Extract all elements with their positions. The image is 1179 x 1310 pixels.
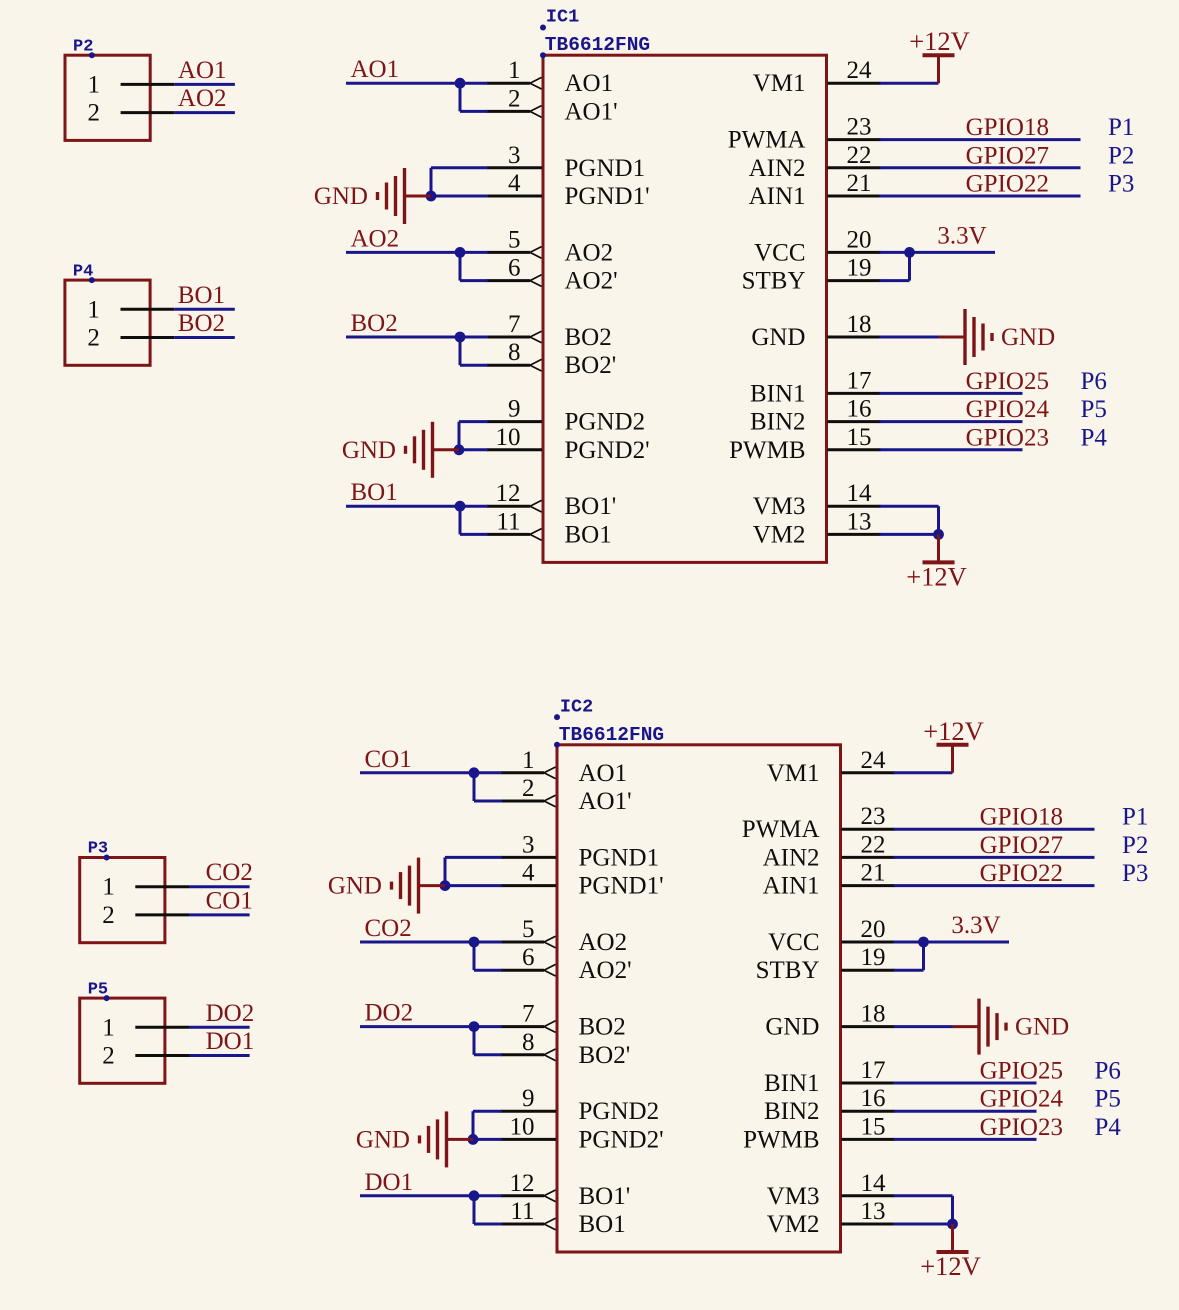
svg-text:P2: P2	[1108, 142, 1134, 169]
svg-text:PWMA: PWMA	[742, 816, 820, 843]
svg-text:AO1': AO1'	[579, 788, 632, 815]
svg-text:20: 20	[847, 226, 872, 253]
svg-text:18: 18	[861, 1001, 886, 1028]
svg-text:23: 23	[847, 114, 872, 141]
svg-text:3: 3	[508, 142, 521, 169]
svg-text:BO1: BO1	[579, 1211, 626, 1238]
svg-text:VM3: VM3	[767, 1183, 820, 1210]
svg-text:BO2': BO2'	[579, 1042, 631, 1069]
svg-text:3.3V: 3.3V	[937, 222, 986, 249]
svg-text:BO2: BO2	[351, 310, 398, 337]
svg-text:9: 9	[508, 396, 521, 423]
svg-text:GPIO27: GPIO27	[966, 142, 1049, 169]
svg-text:6: 6	[522, 944, 535, 971]
svg-text:7: 7	[508, 311, 521, 338]
svg-text:AIN1: AIN1	[763, 873, 820, 900]
svg-text:GND: GND	[1001, 324, 1055, 351]
svg-text:GPIO22: GPIO22	[980, 860, 1063, 887]
svg-text:CO1: CO1	[206, 887, 253, 914]
svg-text:AO2': AO2'	[565, 268, 618, 295]
svg-text:GND: GND	[328, 873, 382, 900]
svg-text:24: 24	[847, 57, 873, 84]
svg-text:11: 11	[510, 1198, 534, 1225]
svg-text:15: 15	[861, 1113, 886, 1140]
svg-text:BO1: BO1	[565, 521, 612, 548]
svg-text:17: 17	[861, 1057, 886, 1084]
svg-text:GND: GND	[765, 1014, 819, 1041]
svg-text:+12V: +12V	[920, 1251, 981, 1281]
svg-text:P3: P3	[1122, 860, 1148, 887]
svg-text:BO2: BO2	[579, 1014, 626, 1041]
svg-text:21: 21	[861, 860, 886, 887]
svg-text:4: 4	[508, 170, 521, 197]
svg-text:PWMB: PWMB	[743, 1126, 819, 1153]
svg-text:VM1: VM1	[753, 70, 806, 97]
svg-text:GPIO23: GPIO23	[966, 424, 1049, 451]
svg-text:1: 1	[102, 874, 115, 901]
svg-text:PGND2: PGND2	[565, 409, 646, 436]
svg-text:GPIO24: GPIO24	[966, 396, 1050, 423]
svg-text:7: 7	[522, 1001, 535, 1028]
svg-text:DO1: DO1	[365, 1169, 414, 1196]
svg-text:IC1: IC1	[546, 7, 579, 28]
svg-text:21: 21	[847, 170, 872, 197]
svg-text:4: 4	[522, 860, 535, 887]
svg-text:17: 17	[847, 367, 872, 394]
svg-text:15: 15	[847, 424, 872, 451]
svg-text:AO1: AO1	[178, 57, 227, 84]
svg-text:BIN2: BIN2	[764, 1098, 820, 1125]
svg-text:DO1: DO1	[206, 1028, 255, 1055]
svg-text:AO2: AO2	[178, 85, 227, 112]
svg-text:11: 11	[496, 508, 520, 535]
svg-text:GPIO27: GPIO27	[980, 832, 1063, 859]
svg-text:P5: P5	[1095, 1086, 1121, 1113]
svg-text:P1: P1	[1108, 114, 1134, 141]
svg-text:8: 8	[522, 1029, 535, 1056]
svg-text:13: 13	[847, 508, 872, 535]
svg-text:PGND1: PGND1	[565, 155, 646, 182]
svg-text:1: 1	[88, 71, 101, 98]
svg-text:AO1': AO1'	[565, 98, 618, 125]
svg-text:P4: P4	[1095, 1114, 1122, 1141]
svg-text:2: 2	[88, 100, 101, 127]
svg-text:STBY: STBY	[742, 268, 806, 295]
svg-text:PGND1': PGND1'	[579, 873, 664, 900]
svg-text:CO2: CO2	[206, 859, 253, 886]
svg-text:P6: P6	[1095, 1058, 1121, 1085]
svg-text:+12V: +12V	[906, 561, 967, 591]
svg-text:VM3: VM3	[753, 493, 806, 520]
svg-text:BIN1: BIN1	[764, 1070, 820, 1097]
svg-text:1: 1	[102, 1014, 115, 1041]
svg-text:GPIO25: GPIO25	[966, 368, 1049, 395]
svg-text:5: 5	[522, 916, 535, 943]
svg-text:BIN2: BIN2	[750, 409, 806, 436]
svg-text:P3: P3	[1108, 171, 1134, 198]
svg-text:GND: GND	[314, 183, 368, 210]
svg-text:AIN2: AIN2	[763, 844, 820, 871]
svg-text:PWMA: PWMA	[728, 127, 806, 154]
svg-text:TB6612FNG: TB6612FNG	[545, 34, 650, 56]
svg-text:P4: P4	[1081, 424, 1108, 451]
svg-text:GPIO23: GPIO23	[980, 1114, 1063, 1141]
svg-text:AO1: AO1	[579, 760, 628, 787]
svg-text:24: 24	[861, 747, 887, 774]
svg-text:16: 16	[861, 1085, 886, 1112]
svg-text:19: 19	[861, 944, 886, 971]
svg-text:GPIO22: GPIO22	[966, 171, 1049, 198]
svg-text:GPIO18: GPIO18	[966, 114, 1049, 141]
svg-text:AO2: AO2	[565, 239, 614, 266]
svg-text:PGND2: PGND2	[579, 1098, 660, 1125]
svg-text:22: 22	[861, 831, 886, 858]
svg-text:+12V: +12V	[909, 26, 970, 56]
svg-text:PWMB: PWMB	[729, 437, 805, 464]
svg-text:P1: P1	[1122, 804, 1148, 831]
svg-text:GND: GND	[356, 1126, 410, 1153]
svg-text:13: 13	[861, 1198, 886, 1225]
svg-text:BIN1: BIN1	[750, 380, 806, 407]
svg-text:2: 2	[102, 902, 115, 929]
svg-text:2: 2	[102, 1043, 115, 1070]
svg-text:20: 20	[861, 916, 886, 943]
svg-text:AIN1: AIN1	[749, 183, 806, 210]
svg-text:1: 1	[508, 57, 521, 84]
svg-text:AO2': AO2'	[579, 957, 632, 984]
svg-text:AO1: AO1	[565, 70, 614, 97]
svg-text:1: 1	[87, 296, 100, 323]
svg-text:BO1: BO1	[351, 479, 398, 506]
svg-text:TB6612FNG: TB6612FNG	[559, 724, 664, 746]
svg-text:14: 14	[847, 480, 873, 507]
svg-text:AO1: AO1	[351, 56, 400, 83]
svg-text:PGND2': PGND2'	[565, 437, 650, 464]
svg-text:1: 1	[522, 747, 535, 774]
svg-text:12: 12	[496, 480, 521, 507]
svg-text:10: 10	[496, 424, 521, 451]
svg-text:+12V: +12V	[923, 716, 984, 746]
svg-text:6: 6	[508, 255, 521, 282]
svg-text:VM2: VM2	[767, 1211, 820, 1238]
svg-text:VCC: VCC	[768, 929, 819, 956]
svg-text:BO2: BO2	[178, 310, 225, 337]
svg-text:2: 2	[87, 325, 100, 352]
svg-text:VM1: VM1	[767, 760, 820, 787]
svg-text:GND: GND	[1015, 1014, 1069, 1041]
svg-text:CO2: CO2	[365, 915, 412, 942]
svg-text:P6: P6	[1081, 368, 1107, 395]
svg-text:AO2: AO2	[351, 225, 400, 252]
svg-text:9: 9	[522, 1085, 535, 1112]
svg-text:BO2': BO2'	[565, 352, 617, 379]
svg-text:23: 23	[861, 803, 886, 830]
svg-text:PGND1': PGND1'	[565, 183, 650, 210]
svg-text:16: 16	[847, 396, 872, 423]
svg-text:VCC: VCC	[754, 239, 805, 266]
svg-text:18: 18	[847, 311, 872, 338]
svg-text:DO2: DO2	[206, 1000, 255, 1027]
svg-text:19: 19	[847, 255, 872, 282]
svg-text:2: 2	[522, 775, 535, 802]
svg-text:GPIO25: GPIO25	[980, 1058, 1063, 1085]
svg-text:IC2: IC2	[560, 696, 593, 717]
svg-text:BO1: BO1	[178, 282, 225, 309]
svg-text:GND: GND	[751, 324, 805, 351]
svg-text:AIN2: AIN2	[749, 155, 806, 182]
svg-text:5: 5	[508, 226, 521, 253]
svg-text:GPIO18: GPIO18	[980, 804, 1063, 831]
svg-text:10: 10	[510, 1113, 535, 1140]
svg-text:AO2: AO2	[579, 929, 628, 956]
svg-text:GPIO24: GPIO24	[980, 1086, 1064, 1113]
svg-text:8: 8	[508, 339, 521, 366]
svg-text:14: 14	[861, 1170, 887, 1197]
svg-text:STBY: STBY	[756, 957, 820, 984]
svg-text:VM2: VM2	[753, 521, 806, 548]
svg-text:BO1': BO1'	[579, 1183, 631, 1210]
svg-text:GND: GND	[342, 437, 396, 464]
svg-text:P5: P5	[1081, 396, 1107, 423]
svg-text:DO2: DO2	[365, 1000, 414, 1027]
svg-text:P2: P2	[1122, 832, 1148, 859]
svg-text:BO2: BO2	[565, 324, 612, 351]
svg-text:2: 2	[508, 85, 521, 112]
svg-text:3.3V: 3.3V	[951, 912, 1000, 939]
svg-text:CO1: CO1	[365, 746, 412, 773]
svg-text:3: 3	[522, 831, 535, 858]
svg-text:PGND2': PGND2'	[579, 1126, 664, 1153]
svg-text:22: 22	[847, 142, 872, 169]
svg-text:PGND1: PGND1	[579, 844, 660, 871]
svg-text:BO1': BO1'	[565, 493, 617, 520]
svg-text:12: 12	[510, 1170, 535, 1197]
